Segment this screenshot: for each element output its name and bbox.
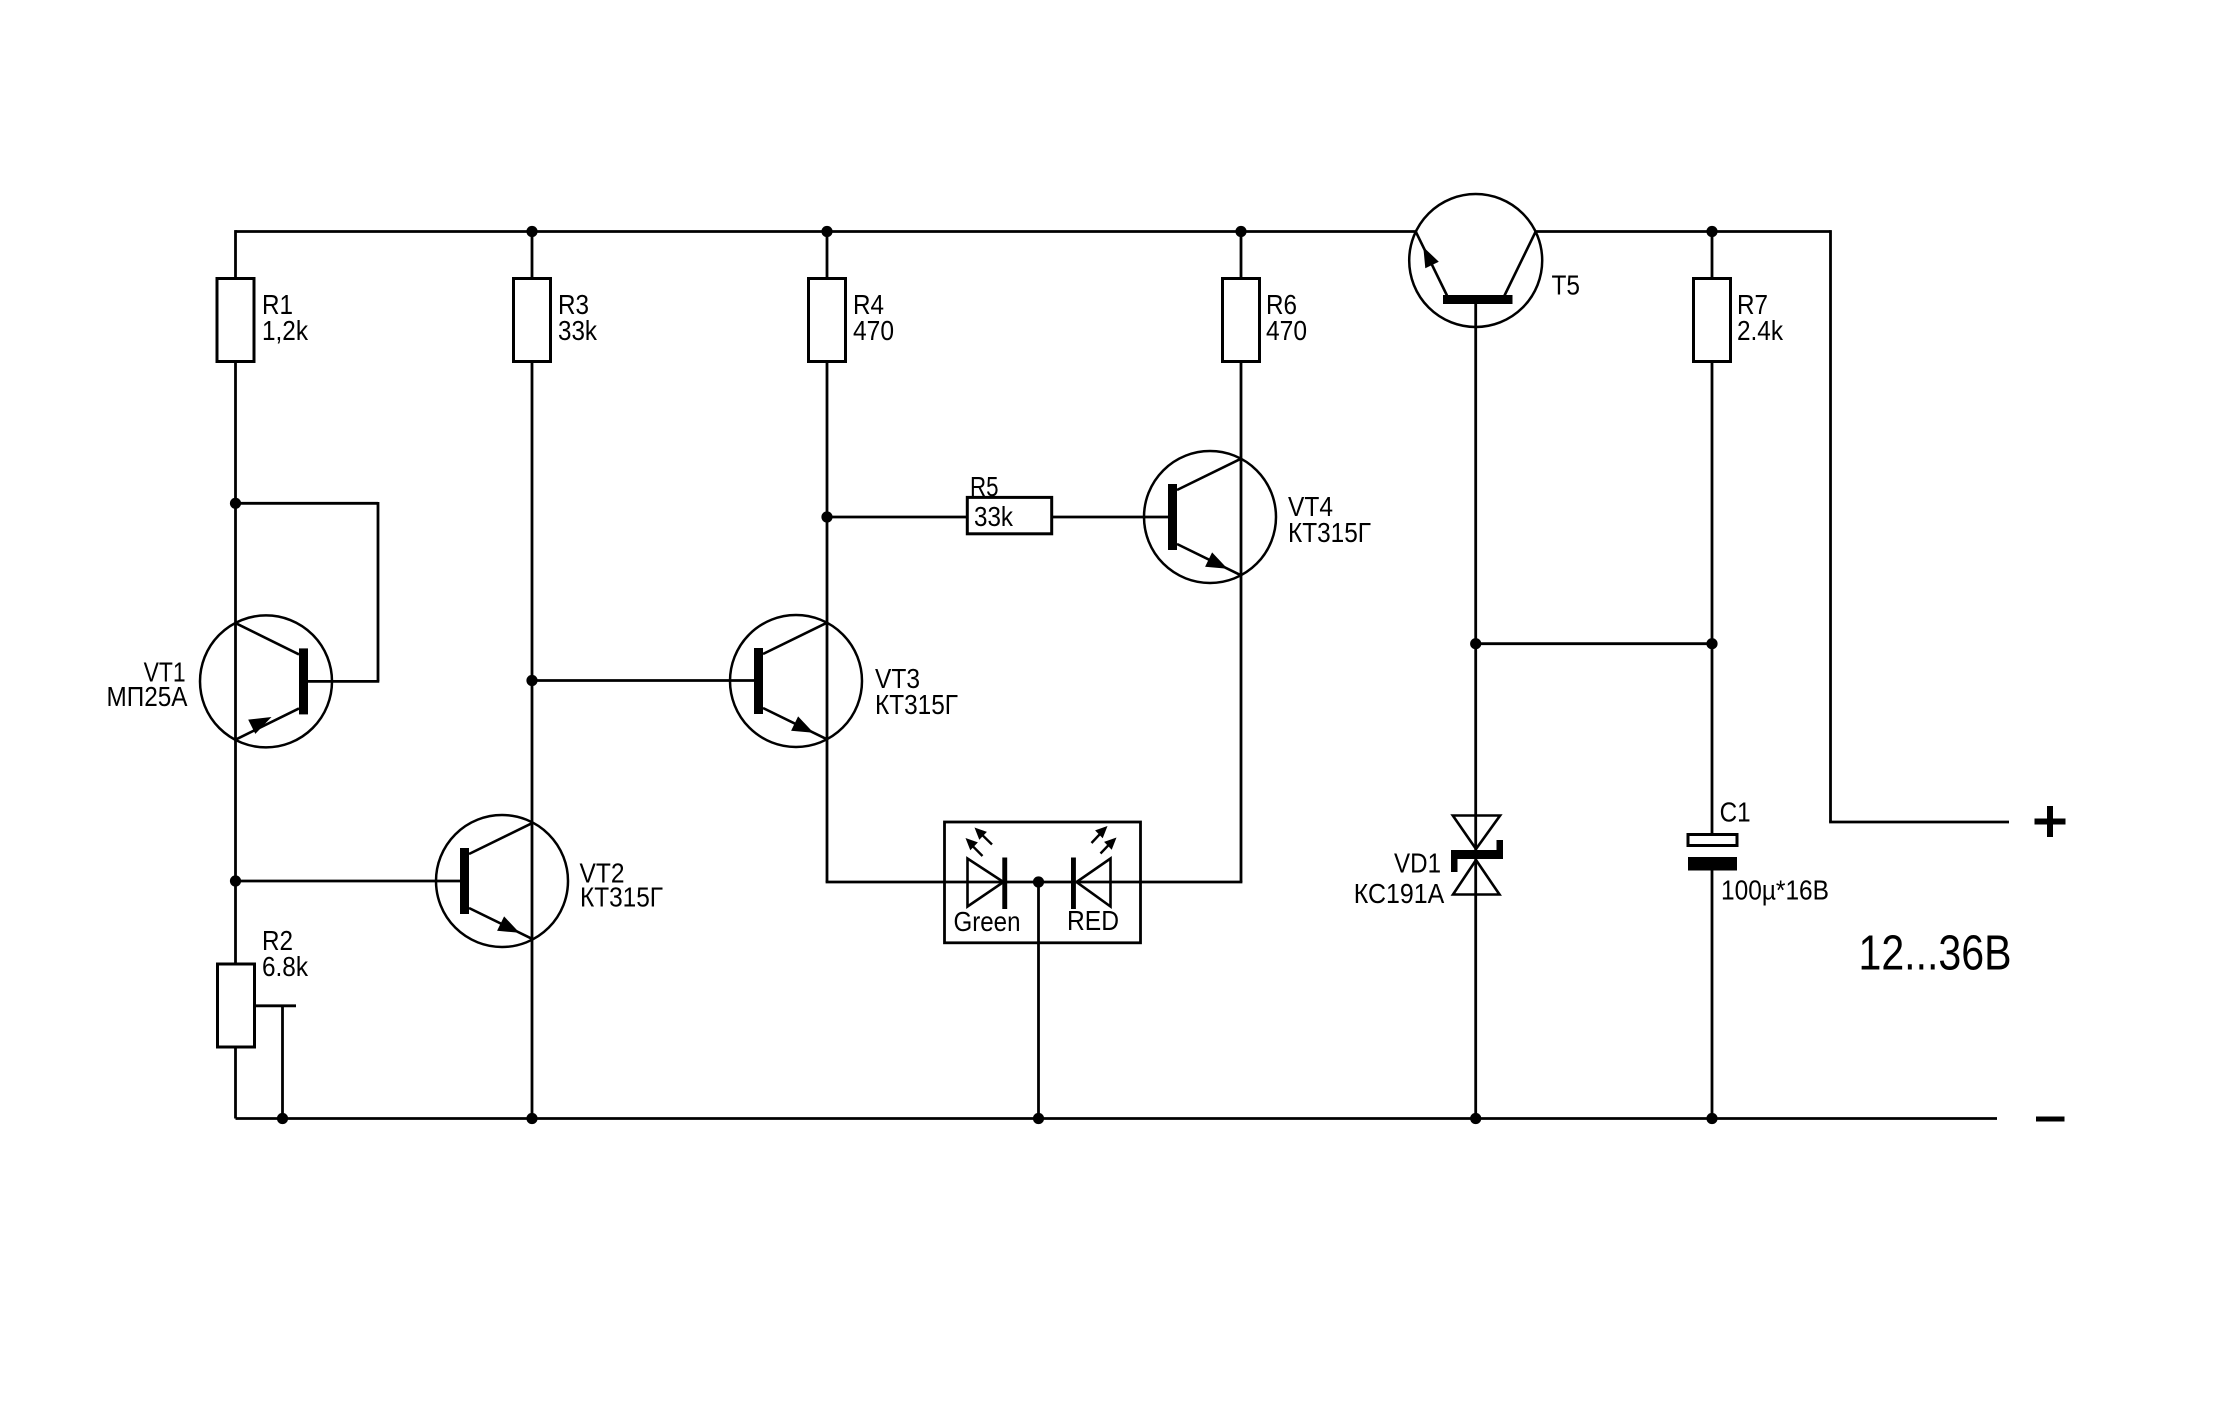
wire: R7 top — [1711, 232, 1714, 279]
svg-text:T5: T5 — [1552, 270, 1581, 301]
svg-text:VD1: VD1 — [1394, 848, 1441, 879]
resistor R3 33k — [514, 279, 551, 362]
LED Green cathode bar — [1002, 858, 1007, 910]
svg-text:2.4k: 2.4k — [1737, 315, 1784, 346]
wire: R4 top — [826, 232, 829, 279]
wire: R3 bottom through VT2 to bottom rail — [531, 362, 534, 1119]
svg-text:100µ*16В: 100µ*16В — [1721, 875, 1829, 906]
resistor R1 — [217, 279, 254, 362]
node: VT1 base loop junction — [230, 498, 241, 509]
capacitor C1 top plate — [1688, 835, 1737, 846]
wire: top positive rail left segment — [236, 230, 1416, 233]
node: VT2 base junction on left rail — [230, 875, 241, 886]
node: VD1 on bottom rail — [1470, 1113, 1481, 1124]
wire: R4 bottom through VT3 down to LED row — [826, 362, 829, 883]
node: R2 tap on bottom rail — [277, 1113, 288, 1124]
transistor T5 (series pass, PNP) — [1409, 194, 1542, 327]
wire: VT1 base-collector loop — [236, 502, 379, 505]
node: top rail junction R3 — [526, 226, 537, 237]
capacitor C1 bottom plate — [1688, 857, 1737, 871]
svg-text:Green: Green — [954, 906, 1021, 937]
svg-text:КС191А: КС191А — [1354, 878, 1445, 909]
wire: left rail down to R1 — [234, 230, 237, 278]
wire: VT3 emitter to LED box — [826, 881, 945, 884]
resistor R2 6.8k trimmer — [218, 964, 255, 1047]
svg-text:33k: 33k — [974, 501, 1014, 532]
svg-text:КТ315Г: КТ315Г — [1288, 517, 1371, 548]
wire: C1 to bottom rail — [1711, 871, 1714, 1119]
zener diode VD1 KS191A (bidirectional) — [1453, 816, 1500, 850]
svg-text:6.8k: 6.8k — [262, 951, 309, 982]
LED assembly box — [945, 822, 1141, 943]
wire: R3 top — [531, 232, 534, 279]
wire: R5 left — [827, 516, 967, 519]
svg-text:470: 470 — [853, 315, 894, 346]
transistor VT1 MP25A (PNP, mirrored) — [200, 615, 332, 747]
wire: R2 bottom to rail — [234, 1047, 237, 1119]
LED RED diode triangle — [1077, 859, 1111, 907]
R2 wiper tap — [254, 1004, 296, 1007]
resistor R4 470 — [809, 279, 846, 362]
wire: R5 right to VT4 base — [1052, 516, 1168, 519]
transistor VT3 KT315G — [730, 615, 862, 747]
wire: LED common to bottom rail — [1037, 882, 1040, 1119]
wire: top rail right of T5 — [1536, 230, 1831, 233]
wire: VT3 base — [532, 679, 754, 682]
resistor R5 33k (horizontal box) — [967, 497, 1051, 533]
transistor VT2 KT315G — [436, 815, 568, 947]
node: C1 on bottom rail — [1706, 1113, 1717, 1124]
node: junction on R7 line — [1706, 638, 1717, 649]
transistor VT4 KT315G — [1144, 451, 1276, 583]
RED LED emission arrows — [1092, 831, 1104, 843]
svg-text:RED: RED — [1067, 905, 1119, 936]
wire: VT2 base — [236, 880, 461, 883]
svg-text:R5: R5 — [970, 471, 999, 502]
resistor R6 470 — [1223, 279, 1260, 362]
svg-text:1,2k: 1,2k — [262, 315, 309, 346]
node: LED common on bottom rail — [1033, 1113, 1044, 1124]
wire: R6 top — [1240, 232, 1243, 279]
wire: VD1 node to R7 node — [1476, 642, 1712, 645]
+ terminal — [2035, 806, 2066, 837]
resistor R7 2.4k — [1694, 279, 1731, 362]
svg-text:470: 470 — [1266, 315, 1307, 346]
node: top rail junction R7 — [1706, 226, 1717, 237]
svg-text:МП25А: МП25А — [107, 681, 188, 712]
node: top rail junction R4 — [821, 226, 832, 237]
svg-text:C1: C1 — [1720, 797, 1751, 828]
svg-text:КТ315Г: КТ315Г — [580, 882, 663, 913]
wire: VT4 emitter to LED box right — [1141, 881, 1243, 884]
svg-text:33k: 33k — [558, 315, 598, 346]
wire through LED assembly — [945, 881, 1141, 884]
node: top rail junction R6 — [1235, 226, 1246, 237]
node: VT2 emitter on bottom rail — [526, 1113, 537, 1124]
wire: R6 bottom through VT4 down to LED row — [1240, 362, 1243, 883]
node: VT3 base junction — [526, 675, 537, 686]
wire: bottom negative rail — [236, 1117, 1998, 1120]
wire: right branch down to + terminal — [1829, 230, 1832, 822]
Green LED emission arrows — [979, 832, 992, 845]
node: LED common cathode — [1033, 876, 1044, 887]
svg-text:КТ315Г: КТ315Г — [875, 689, 958, 720]
node: R4/R5 junction — [821, 511, 832, 522]
svg-text:12...36В: 12...36В — [1859, 927, 2012, 981]
node: T5 base / VD1 junction — [1470, 638, 1481, 649]
LED RED cathode bar — [1071, 858, 1076, 910]
wire: R1 bottom through VT1 to R2 — [234, 362, 237, 965]
LED Green diode triangle — [968, 859, 1004, 907]
- terminal — [2036, 1117, 2065, 1122]
wire: T5 base down through VD1 to bottom rail — [1474, 304, 1477, 1119]
wire: R7 bottom to C1 — [1711, 362, 1714, 835]
